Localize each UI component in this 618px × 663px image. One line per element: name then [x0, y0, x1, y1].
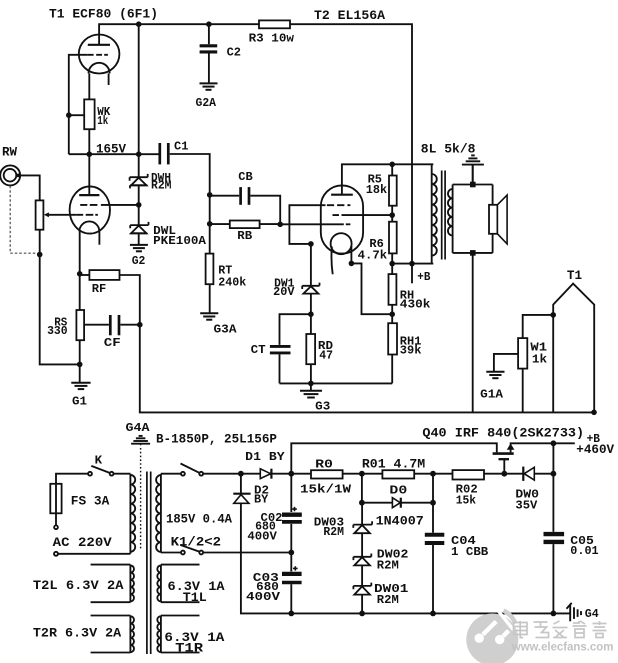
wire: pot bottom down to RS bottom: [40, 230, 80, 365]
wire: +B line to OPT primary bottom: [392, 263, 433, 265]
node: C02 bottom: [288, 550, 294, 556]
svg-text:1N4007: 1N4007: [376, 515, 424, 529]
tube V2 heater tail: [331, 247, 332, 275]
svg-text:R2M: R2M: [151, 180, 172, 193]
wire: V1a cathode through WK to V2 plate: [88, 73, 90, 195]
watermark CJK text: [514, 621, 607, 638]
svg-text:CB: CB: [238, 170, 252, 184]
tube V1b cathode dome: [79, 221, 99, 231]
switch K1/2 top: [161, 473, 181, 475]
wire: rectifier output line: [203, 473, 553, 475]
ground G3: [310, 383, 312, 390]
wire: B+ rail from V1 plate to T2 drop: [99, 24, 412, 263]
resistor RH 430k: [389, 274, 397, 305]
node: bus right end: [591, 410, 597, 416]
svg-text:G1A: G1A: [480, 388, 504, 402]
svg-text:RW: RW: [2, 146, 18, 160]
node: DW0 right: [551, 471, 557, 477]
svg-text:400V: 400V: [246, 591, 280, 604]
tube V1b ECF80 triode: envelope: [70, 186, 110, 233]
wire: W1 left stub to G1A: [494, 354, 518, 372]
svg-text:35V: 35V: [515, 498, 538, 512]
wire: grid1 L-branch to DW1: [289, 205, 325, 244]
diode D2 BY: [240, 474, 242, 494]
svg-text:T1 ECF80 (6F1): T1 ECF80 (6F1): [49, 7, 158, 22]
node: R6 bottom / +B line: [389, 261, 395, 267]
capacitor C05 0.01: [552, 474, 554, 532]
capacitor CT: [280, 314, 311, 383]
svg-text:15k: 15k: [456, 494, 476, 508]
svg-text:CF: CF: [104, 336, 121, 350]
svg-text:T2 EL156A: T2 EL156A: [314, 8, 385, 23]
svg-text:4.7k: 4.7k: [358, 249, 388, 263]
capacitor C02 680/400V: [290, 474, 292, 512]
svg-text:R01 4.7M: R01 4.7M: [362, 458, 425, 472]
tube V1a ECF80 pentode: envelope: [79, 35, 120, 74]
svg-text:FS 3A: FS 3A: [71, 494, 110, 508]
transformer OPT secondary: [452, 185, 454, 253]
svg-text:C2: C2: [227, 46, 241, 60]
tube V1b heater stub: [98, 231, 100, 244]
transformer PT secondary 185V: [160, 474, 162, 553]
winding T2R 6.3V 2A: [91, 616, 131, 653]
node: rail junction to C2: [206, 21, 212, 27]
capacitor CB: [210, 195, 240, 197]
wire: WK tap stub: [69, 114, 85, 116]
wire: RH/RH1 column: [391, 264, 393, 384]
wire: grid2 to R5/R6 junction: [348, 214, 393, 216]
svg-text:RF: RF: [92, 282, 107, 296]
svg-text:T2L 6.3V 2A: T2L 6.3V 2A: [33, 579, 124, 593]
tube V1a heater stub: [108, 73, 110, 85]
svg-text:R2M: R2M: [377, 560, 399, 573]
node: 165V at WK bottom: [87, 151, 93, 157]
svg-text:G4A: G4A: [126, 421, 151, 435]
ground G1: [71, 383, 90, 389]
wire: shield dotted: [140, 444, 142, 549]
svg-text:C1: C1: [174, 140, 188, 154]
node: gate junction: [501, 471, 507, 477]
zener DWL PKE100A: [130, 222, 148, 233]
node: RB junction: [207, 221, 213, 227]
node: rail junction to DWH branch: [136, 21, 142, 27]
resistor RS 330: [76, 310, 84, 340]
transformer PT core: [147, 472, 151, 655]
transformer PT primary 220V: [129, 474, 131, 554]
ground G1A: [486, 372, 504, 378]
svg-text:BY: BY: [254, 494, 268, 507]
resistor R5 18k: [389, 176, 397, 206]
transistor Q40 symbol: [493, 452, 514, 455]
ground: speaker return (inverted): [462, 155, 484, 164]
resistor WK 1k: [84, 99, 94, 129]
winding T1L 6.3V 1A: [161, 565, 200, 603]
svg-text:RB: RB: [237, 229, 252, 243]
svg-text:0.01: 0.01: [570, 544, 598, 558]
wire: 165V line: [69, 153, 160, 155]
tube V2 cathode dome: [331, 233, 352, 254]
resistor R0 15k/1W: [311, 470, 343, 478]
tube V1b grid dashes row2: [77, 214, 98, 216]
ground G3A: [200, 313, 218, 319]
wire: secondary to speaker: [453, 185, 493, 253]
resistor RF: [80, 274, 90, 276]
capacitor C2: [208, 24, 210, 83]
svg-text:Q40 IRF 840(2SK2733): Q40 IRF 840(2SK2733): [422, 426, 584, 441]
svg-text:1 CBB: 1 CBB: [451, 545, 488, 559]
svg-text:240k: 240k: [218, 275, 246, 289]
tube V2 EL156: envelope: [321, 185, 363, 253]
node: V2 grid junction: [136, 202, 142, 208]
capacitor C1: [158, 143, 161, 164]
zener DW1 20V: [310, 244, 312, 314]
svg-text:CT: CT: [251, 344, 266, 357]
ground G2A: [200, 83, 218, 89]
node: R0/R01/DW03 junction: [359, 471, 365, 477]
node: cathode/RF junction: [77, 271, 83, 277]
svg-text:G4: G4: [585, 607, 599, 621]
node: R5 top: [389, 162, 395, 168]
wire: V2 cathode to RH/RH1 junction: [351, 246, 392, 314]
svg-text:G2A: G2A: [196, 96, 217, 110]
resistor R3: [259, 20, 290, 28]
node: R01 right: [430, 471, 436, 477]
node: CB junction: [207, 192, 213, 198]
svg-text:47: 47: [319, 349, 333, 363]
node: 165V to DWH branch: [136, 151, 142, 157]
winding T2L 6.3V 2A: [91, 565, 131, 603]
capacitor CF: [84, 324, 109, 326]
watermark logo: [466, 610, 518, 663]
resistor R01 4.7M: [382, 470, 414, 478]
svg-text:18k: 18k: [366, 183, 387, 197]
wire: RF right to feedback bus: [120, 275, 595, 412]
net +B stub: [411, 264, 413, 284]
svg-text:430k: 430k: [400, 298, 431, 312]
resistor RD 47: [310, 314, 312, 383]
svg-text:G1: G1: [72, 395, 87, 409]
ground G2: [130, 245, 148, 251]
potentiometer RW volume: [36, 200, 44, 229]
svg-text:185V 0.4A: 185V 0.4A: [166, 512, 232, 526]
tube V2 plate: [331, 194, 353, 196]
capacitor C04 1 CBB: [425, 533, 445, 537]
svg-text:R2M: R2M: [377, 594, 399, 607]
tube V1b plate: [79, 194, 99, 196]
resistor W1 1k: [523, 315, 554, 338]
svg-text:8L 5k/8: 8L 5k/8: [421, 142, 476, 157]
svg-text:330: 330: [47, 324, 68, 338]
svg-text:PKE100A: PKE100A: [153, 234, 207, 248]
svg-text:T2R 6.3V 2A: T2R 6.3V 2A: [33, 627, 122, 641]
winding T1R 6.3V 1A: [161, 616, 200, 653]
svg-text:R3 10w: R3 10w: [249, 31, 295, 45]
svg-text:15k/1W: 15k/1W: [300, 482, 352, 496]
terminal + wire AC: [54, 552, 58, 556]
svg-text:T1R: T1R: [175, 642, 204, 656]
wire: D2 down + ground bus: [241, 503, 570, 613]
wire: raw B+ up to Q40 drain rail: [291, 443, 497, 473]
transformer OPT primary: [431, 164, 433, 263]
svg-text:R0: R0: [315, 458, 333, 472]
capacitor C03 680/400V: [290, 553, 292, 572]
svg-text:39k: 39k: [400, 343, 422, 357]
wire: grid feed into V2 tube: [280, 223, 344, 225]
svg-text:400V: 400V: [247, 531, 277, 544]
node: RH/RH1 junction: [389, 311, 395, 317]
wire: DWH/DWL vertical branch: [138, 24, 140, 245]
svg-text:AC 220V: AC 220V: [53, 536, 113, 550]
zener DW0 35V: [522, 467, 524, 481]
svg-text:K1/2<2: K1/2<2: [171, 535, 222, 549]
tube V1a cathode dome: [89, 63, 110, 74]
tube V1a grid dashes: [87, 54, 108, 56]
zener chain DW03/DW02/DW01 R2M: [361, 503, 363, 614]
svg-text:D1 BY: D1 BY: [245, 450, 285, 464]
svg-text:B-1850P, 25L156P: B-1850P, 25L156P: [156, 433, 277, 447]
svg-text:R2M: R2M: [323, 526, 344, 539]
resistor RT 240k: [206, 254, 214, 285]
tube V1a plate: [88, 44, 110, 46]
svg-text:20V: 20V: [273, 286, 294, 299]
wire: V2 grid to branch: [101, 204, 139, 206]
svg-text:T1: T1: [567, 269, 582, 283]
svg-text:www.elecfans.com: www.elecfans.com: [511, 640, 614, 654]
wire: RW to volume pot: [16, 175, 39, 200]
wire: speaker bottom to bus (drawn with bus): [472, 253, 474, 413]
node: W1 top junction: [550, 312, 556, 318]
svg-text:+B: +B: [417, 270, 430, 284]
tube V1b cathode leg: [79, 231, 81, 310]
transformer OPT core: [442, 171, 445, 260]
svg-text:G3: G3: [315, 400, 330, 414]
node: DW1/CT/RD junction: [308, 311, 314, 317]
wire: R5/R6 column: [391, 164, 393, 263]
svg-text:1k: 1k: [97, 115, 108, 128]
ground G4 (sideways): [567, 603, 582, 621]
tube V2 grid2 dashes: [333, 214, 348, 216]
node: D2 tap: [238, 471, 244, 477]
wire: RW shield dashed: [10, 186, 37, 253]
diode D0 1N4007: [362, 474, 433, 533]
svg-text:D0: D0: [389, 484, 407, 498]
tube V1b grid dashes row1: [80, 204, 97, 206]
svg-text:T1L: T1L: [183, 591, 207, 605]
resistor R6 4.7k: [389, 222, 397, 254]
resistor R02 15k: [453, 470, 485, 479]
wire: CT/RD bottom row to RH1: [280, 382, 393, 384]
svg-text:1k: 1k: [532, 354, 547, 367]
wire: CB right down to RB junction: [250, 196, 280, 225]
wire: V1a grid to left drop: [69, 55, 88, 154]
svg-text:W1: W1: [530, 341, 547, 354]
wire: V2 plate stem and top rail to OPT: [342, 164, 433, 194]
svg-text:G3A: G3A: [214, 323, 238, 337]
resistor RH1 39k: [388, 323, 397, 354]
fuse FS 3A: [50, 484, 61, 514]
wire: C1 to CB/RB/RT column: [170, 154, 210, 313]
svg-text:G2: G2: [132, 254, 146, 268]
svg-text:K: K: [95, 454, 103, 468]
resistor RB: [210, 223, 230, 225]
node: drain rail corner: [551, 440, 557, 446]
wiper arrow: [44, 212, 49, 217]
zener DWH R2M: [130, 174, 148, 189]
svg-text:+460V: +460V: [576, 443, 614, 457]
node: D1 output: [288, 471, 294, 477]
wire: T1 pentagon: [553, 284, 594, 413]
speaker: [492, 185, 494, 253]
